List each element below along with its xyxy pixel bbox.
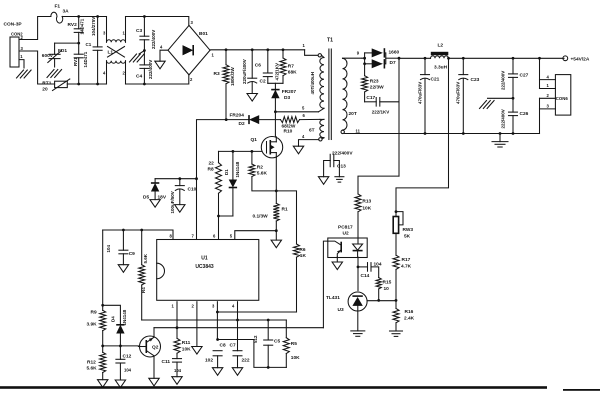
svg-text:RV1: RV1 xyxy=(73,57,78,66)
svg-text:R13: R13 xyxy=(362,199,371,205)
svg-text:4.7K: 4.7K xyxy=(401,263,412,269)
svg-text:20T: 20T xyxy=(349,111,357,117)
diode D2 FR204 xyxy=(225,113,281,128)
svg-text:R5: R5 xyxy=(291,341,297,347)
svg-text:FR204: FR204 xyxy=(230,113,245,119)
svg-text:Q2: Q2 xyxy=(152,345,159,351)
primary ground C12 xyxy=(115,380,125,388)
resistor R10 68/2W xyxy=(281,113,321,134)
resistor R3 180K/3W xyxy=(214,50,236,120)
svg-text:C6: C6 xyxy=(255,63,261,69)
svg-text:C3: C3 xyxy=(136,28,142,34)
primary ground 6T xyxy=(293,146,303,154)
optocoupler U2 PC817 xyxy=(328,225,367,258)
capacitor C21 470uF/63V xyxy=(417,58,439,133)
primary ground C6 xyxy=(247,94,257,102)
discharge tube FD1 600V xyxy=(42,43,68,67)
wire node A to D4 xyxy=(103,305,121,324)
wire opto emitter to ground xyxy=(336,257,338,262)
svg-text:1: 1 xyxy=(172,304,175,309)
svg-text:10K: 10K xyxy=(362,206,371,212)
wire snubber join xyxy=(268,82,283,84)
svg-text:FR207: FR207 xyxy=(282,89,297,95)
resistor R11 10K xyxy=(174,338,191,358)
wire CON6 pins 2,3 xyxy=(540,93,556,134)
svg-text:C17: C17 xyxy=(366,95,375,101)
wire TL431 anode down xyxy=(357,311,359,331)
capacitor C11 104 xyxy=(162,359,182,377)
earth ground C13 xyxy=(335,177,344,182)
capacitor C5 512 xyxy=(253,320,280,367)
svg-text:220uF/400V: 220uF/400V xyxy=(242,59,247,84)
svg-text:C13: C13 xyxy=(337,164,346,170)
svg-text:22: 22 xyxy=(209,161,215,167)
svg-text:4: 4 xyxy=(547,74,550,79)
svg-text:1: 1 xyxy=(547,83,550,88)
svg-text:1: 1 xyxy=(20,54,23,59)
wire source to R6 xyxy=(276,191,296,244)
svg-text:U1: U1 xyxy=(201,256,208,262)
fuse F1 3A xyxy=(51,4,69,24)
primary ground C11 xyxy=(172,377,182,385)
svg-text:R10: R10 xyxy=(284,128,293,134)
wire D7 cathode node down xyxy=(398,57,401,176)
wire pin1 stub xyxy=(176,302,178,339)
inductor L2 3.3uH xyxy=(431,43,449,71)
svg-text:C12: C12 xyxy=(123,353,132,359)
svg-text:C23: C23 xyxy=(471,77,480,83)
choke L1 top winding xyxy=(103,17,126,56)
resistor R2 5.6K xyxy=(249,151,276,191)
svg-text:3: 3 xyxy=(547,104,550,109)
svg-text:R6: R6 xyxy=(299,247,305,253)
transistor Q2 xyxy=(138,336,160,357)
svg-text:R15: R15 xyxy=(383,279,392,285)
svg-text:Q1: Q1 xyxy=(251,137,258,143)
primary ground C9 xyxy=(118,265,128,273)
svg-text:+54V/2A: +54V/2A xyxy=(571,56,590,62)
wire RW3 sense line xyxy=(396,58,449,211)
svg-text:11: 11 xyxy=(356,128,361,133)
svg-text:5: 5 xyxy=(230,233,233,238)
diode D4 1N4148 xyxy=(111,309,128,346)
svg-text:C27: C27 xyxy=(520,72,529,78)
shunt regulator U3 TL431 xyxy=(326,292,367,313)
capacitor C14 104 xyxy=(358,261,382,279)
svg-text:180K/3W: 180K/3W xyxy=(230,66,235,86)
svg-text:FD1: FD1 xyxy=(58,48,67,54)
wire Q2 collector xyxy=(153,328,155,338)
capacitor C4 222/400V xyxy=(136,51,153,85)
svg-text:10: 10 xyxy=(384,286,390,292)
svg-text:R16: R16 xyxy=(405,309,414,315)
wire output rail post L2 xyxy=(447,57,564,60)
potentiometer RW3 5K xyxy=(393,210,413,255)
wire CS line xyxy=(216,311,297,314)
wire pin2 stub xyxy=(196,302,198,347)
svg-text:RT1: RT1 xyxy=(42,80,51,86)
capacitor C23 470uF/63V xyxy=(456,58,480,133)
svg-text:R4: R4 xyxy=(141,287,146,293)
wire RT/CT line xyxy=(142,319,287,322)
wire TL431 ref xyxy=(367,300,396,302)
dual diode D7 1660 xyxy=(362,48,400,68)
capacitor C8 102 xyxy=(205,342,226,367)
snubber capacitor C17 222/1KV xyxy=(365,95,399,114)
wire Q2 emitter xyxy=(153,356,155,379)
wire gate line xyxy=(219,150,262,153)
svg-text:222/1KV: 222/1KV xyxy=(372,109,390,114)
svg-text:C11: C11 xyxy=(162,359,171,365)
svg-text:C10: C10 xyxy=(188,187,197,193)
wire opto LED cathode down xyxy=(357,257,360,291)
wire output rail pre L2 xyxy=(399,57,431,60)
transformer T1 secondary winding 20T xyxy=(341,58,361,133)
chassis ground FD1 xyxy=(47,70,62,78)
mosfet Q1 xyxy=(251,137,283,158)
svg-text:R23: R23 xyxy=(370,79,379,85)
svg-text:470uF/63V: 470uF/63V xyxy=(417,82,422,104)
svg-text:R8: R8 xyxy=(208,167,214,173)
wire 6T pin4 to ground xyxy=(299,134,319,146)
svg-text:7: 7 xyxy=(192,233,195,238)
svg-text:R9: R9 xyxy=(91,310,97,316)
node B line xyxy=(101,345,138,348)
svg-text:C9: C9 xyxy=(129,251,135,257)
svg-text:6: 6 xyxy=(213,233,216,238)
bottom border line xyxy=(0,386,600,391)
svg-text:0.1/3W: 0.1/3W xyxy=(253,214,269,220)
svg-text:104/275V: 104/275V xyxy=(91,17,96,36)
svg-text:3.9K: 3.9K xyxy=(87,322,98,328)
svg-text:1660: 1660 xyxy=(389,49,400,55)
svg-text:UC3843: UC3843 xyxy=(195,264,214,270)
capacitor C27 222/400V xyxy=(500,58,528,98)
svg-text:CON6: CON6 xyxy=(556,96,569,101)
chassis ground output xyxy=(480,101,495,109)
svg-text:R7: R7 xyxy=(288,64,294,70)
diode D3 FR207 xyxy=(271,83,296,112)
wire bottom AC rail to L1 xyxy=(67,83,106,86)
svg-text:104: 104 xyxy=(374,261,382,267)
primary ground D5 xyxy=(150,200,160,208)
thermistor RT1 20 xyxy=(42,79,70,93)
wire CON2 pin1 to chassis ground xyxy=(19,60,24,68)
chassis ground CON2 xyxy=(17,70,32,78)
resistor R16 2.4K xyxy=(393,309,415,332)
wire DC bus rail xyxy=(210,48,305,51)
svg-text:222/400V: 222/400V xyxy=(500,109,505,128)
controller U1 UC3843 xyxy=(157,233,259,308)
svg-text:R2: R2 xyxy=(257,165,263,171)
svg-text:6T: 6T xyxy=(309,128,315,134)
svg-text:C7: C7 xyxy=(230,342,236,348)
svg-text:22/3W: 22/3W xyxy=(370,85,384,91)
primary ground bridge xyxy=(155,61,165,69)
svg-text:C5: C5 xyxy=(274,339,280,345)
transformer T1 aux winding 6T xyxy=(309,119,324,141)
choke L1 bottom winding xyxy=(103,61,126,84)
earth ground R16 xyxy=(390,331,403,336)
capacitor C7 222 xyxy=(230,342,250,367)
wire C8 node to C5/R5 bottom xyxy=(218,340,287,369)
svg-text:D3: D3 xyxy=(284,95,290,101)
svg-text:R3: R3 xyxy=(214,71,220,77)
svg-text:104: 104 xyxy=(106,244,111,252)
wire VCC line to pin7 xyxy=(195,120,226,239)
svg-text:222/400V: 222/400V xyxy=(148,60,153,79)
resistor R15 10 xyxy=(376,278,392,302)
svg-text:RV2: RV2 xyxy=(68,22,78,28)
svg-text:L2: L2 xyxy=(438,43,444,49)
transformer T1 core xyxy=(329,49,331,140)
svg-text:D4: D4 xyxy=(111,316,116,322)
svg-text:R17: R17 xyxy=(402,257,411,263)
svg-text:6: 6 xyxy=(303,113,306,118)
capacitor C3 222/400V xyxy=(136,17,156,51)
svg-text:5.6K: 5.6K xyxy=(257,171,268,177)
svg-text:1: 1 xyxy=(303,43,306,48)
svg-text:470uF/63V: 470uF/63V xyxy=(456,82,461,104)
primary ground pin2 xyxy=(192,347,202,355)
capacitor C1 104/275V xyxy=(86,17,103,85)
svg-text:104: 104 xyxy=(174,368,182,373)
wire T1 pin1 from DC rail xyxy=(303,43,318,55)
svg-text:3: 3 xyxy=(191,20,194,25)
earth ground TL431 xyxy=(351,331,365,336)
svg-text:2.4K: 2.4K xyxy=(404,315,415,321)
svg-text:D1: D1 xyxy=(224,169,229,175)
primary ground C8 xyxy=(212,368,222,376)
svg-text:D7: D7 xyxy=(390,60,396,66)
svg-text:R12: R12 xyxy=(87,360,96,366)
wire CON6 pins 4,1 xyxy=(540,58,556,88)
transformer T1 primary dot xyxy=(318,54,321,57)
svg-text:3: 3 xyxy=(212,304,215,309)
primary ground R12 xyxy=(98,380,108,388)
capacitor C26 222/400V xyxy=(500,98,528,133)
wire drain node to T1 pin5 xyxy=(274,105,319,113)
resistor R8 22 xyxy=(208,151,222,216)
svg-text:10K: 10K xyxy=(291,355,300,361)
svg-text:5: 5 xyxy=(302,105,305,110)
transformer T1 primary winding 40T/400uH xyxy=(310,55,324,112)
choke L1 core cross xyxy=(108,47,125,58)
wire bridge minus to primary ground xyxy=(160,50,168,61)
primary ground C13 xyxy=(318,177,328,185)
svg-text:F1: F1 xyxy=(55,4,61,10)
connector CON2 (CON-3P) xyxy=(4,22,24,68)
resistor R5 10K xyxy=(283,320,300,367)
wire C27/C26 mid to chassis xyxy=(488,97,515,100)
svg-text:222/400V: 222/400V xyxy=(500,71,505,90)
svg-text:D2: D2 xyxy=(239,121,245,127)
svg-text:4: 4 xyxy=(232,304,235,309)
svg-text:5.6K: 5.6K xyxy=(87,366,98,372)
varistor RV2 14D471 xyxy=(68,17,85,44)
svg-text:14D471: 14D471 xyxy=(83,51,88,67)
wire bottom AC rail L1 to bridge xyxy=(126,75,189,86)
svg-text:1: 1 xyxy=(212,53,215,58)
node C3/C4 midpoint chassis ground xyxy=(130,49,146,62)
primary ground R1 xyxy=(271,240,281,248)
resistor R1 0.1/3W xyxy=(253,203,288,240)
svg-text:104: 104 xyxy=(124,368,132,373)
svg-text:C4: C4 xyxy=(136,74,142,80)
zener D5 18V xyxy=(143,179,167,201)
snubber resistor R23 22/3W xyxy=(362,64,385,102)
resistor R12 5.6K xyxy=(87,352,106,379)
svg-text:C8: C8 xyxy=(220,342,226,348)
svg-text:C1: C1 xyxy=(86,42,92,47)
svg-text:U3: U3 xyxy=(338,307,344,313)
svg-text:222: 222 xyxy=(242,357,250,363)
svg-text:4: 4 xyxy=(302,134,305,139)
wire T1 pin9 to D7 xyxy=(343,51,363,59)
wire R1 bottom to pin5 xyxy=(235,231,276,239)
svg-text:222/400V: 222/400V xyxy=(151,30,156,49)
wire R13 sense line xyxy=(358,176,399,194)
bridge rectifier B01 xyxy=(160,20,215,82)
svg-text:14D471: 14D471 xyxy=(80,18,85,34)
wire Vref left rail down xyxy=(102,230,104,305)
svg-text:4: 4 xyxy=(103,71,106,76)
svg-text:3: 3 xyxy=(103,31,106,36)
svg-text:C14: C14 xyxy=(361,273,370,279)
svg-text:C2: C2 xyxy=(260,79,266,85)
svg-text:3.3uH: 3.3uH xyxy=(434,65,448,71)
capacitor C6 220uF/400V xyxy=(242,50,261,94)
capacitor C13 222/400V xyxy=(324,150,354,176)
svg-text:5.6K: 5.6K xyxy=(143,253,148,263)
svg-text:1N4148: 1N4148 xyxy=(122,309,127,325)
capacitor C9 104 xyxy=(106,230,135,265)
svg-text:68K: 68K xyxy=(288,70,297,76)
wire CON2 pin3 to RT1 xyxy=(19,51,55,84)
wire COMP line xyxy=(154,326,323,329)
svg-text:2: 2 xyxy=(192,304,195,309)
resistor R6 1K xyxy=(294,244,307,312)
primary ground C7 xyxy=(232,368,242,376)
svg-text:102: 102 xyxy=(205,357,213,363)
svg-text:2: 2 xyxy=(547,93,550,98)
svg-text:R11: R11 xyxy=(182,340,191,346)
capacitor C10 100uF/50V xyxy=(170,179,197,214)
svg-text:U2: U2 xyxy=(343,231,349,237)
svg-text:40T/400uH: 40T/400uH xyxy=(310,72,315,95)
svg-text:2: 2 xyxy=(190,77,193,82)
connector CON6 xyxy=(555,75,570,116)
wire top AC rail L1 to bridge xyxy=(126,15,189,25)
svg-text:10K: 10K xyxy=(182,346,191,352)
varistor RV1 14D471 xyxy=(73,43,88,84)
earth ground secondary rail xyxy=(492,134,508,148)
svg-text:1K: 1K xyxy=(300,253,307,259)
svg-text:1N4148: 1N4148 xyxy=(235,161,240,177)
capacitor C2 472/1KV xyxy=(260,50,280,85)
wire VCC branch xyxy=(155,177,196,180)
svg-text:3: 3 xyxy=(21,46,24,51)
svg-text:R1: R1 xyxy=(282,207,288,213)
capacitor C12 104 xyxy=(116,346,132,380)
svg-text:8: 8 xyxy=(170,233,173,238)
wire opto collector line xyxy=(323,241,327,328)
wire pin4 stub xyxy=(237,302,239,351)
svg-text:20: 20 xyxy=(42,87,48,93)
svg-text:TL431: TL431 xyxy=(326,295,340,301)
svg-text:3A: 3A xyxy=(63,9,70,15)
svg-text:B01: B01 xyxy=(199,31,208,37)
primary ground Q2 xyxy=(149,378,159,386)
svg-text:C26: C26 xyxy=(520,111,529,117)
wire Q1 source node xyxy=(275,158,278,204)
svg-text:222/400V: 222/400V xyxy=(332,150,353,156)
svg-text:T1: T1 xyxy=(327,38,333,44)
wire Vref rail xyxy=(103,229,173,239)
svg-text:512: 512 xyxy=(253,335,258,343)
primary ground C10 xyxy=(175,205,185,213)
svg-text:600V: 600V xyxy=(42,53,54,59)
wire drain node down to Q1 xyxy=(274,112,276,137)
svg-text:472/1KV: 472/1KV xyxy=(275,63,280,81)
wire pin3 stub xyxy=(216,302,219,341)
resistor R7 68K xyxy=(280,50,297,84)
svg-text:RW3: RW3 xyxy=(403,227,414,233)
resistor R4 5.6K xyxy=(139,230,148,320)
svg-text:100uF/50V: 100uF/50V xyxy=(170,191,175,213)
wire secondary ground rail xyxy=(345,132,540,135)
resistor R9 3.9K xyxy=(87,305,106,352)
primary ground opto xyxy=(332,262,342,270)
svg-text:9: 9 xyxy=(357,51,360,56)
svg-text:CON-3P: CON-3P xyxy=(4,22,23,28)
resistor R13 10K xyxy=(355,194,372,237)
resistor R17 4.7K xyxy=(393,255,412,308)
svg-text:4: 4 xyxy=(160,45,163,50)
svg-text:C21: C21 xyxy=(431,76,440,82)
svg-text:5K: 5K xyxy=(404,233,411,239)
transformer T1 label xyxy=(327,38,333,44)
diode D1 1N4148 xyxy=(224,151,240,216)
terminal +54V/2A xyxy=(563,56,590,62)
wire CON2 pin2 to fuse xyxy=(19,17,51,40)
svg-text:D5: D5 xyxy=(143,195,149,201)
node A xyxy=(101,304,104,307)
wire R8/D1 bottom to pin6 xyxy=(217,215,233,239)
svg-text:PC817: PC817 xyxy=(338,225,353,231)
wire RV2/RV1 mid node xyxy=(55,42,81,45)
wire top AC rail to L1 xyxy=(62,15,106,18)
